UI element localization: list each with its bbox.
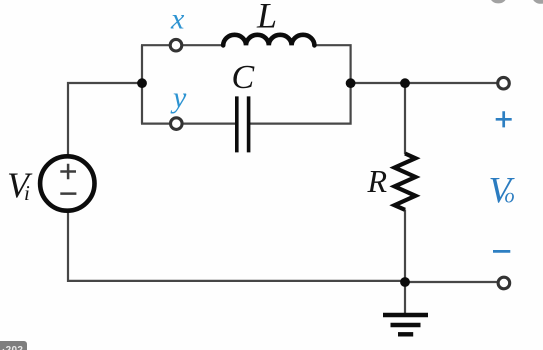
output minus sign (blue) [493, 250, 510, 253]
node: junction at Vi branch [137, 78, 147, 88]
output + terminal open circle [498, 77, 510, 89]
wire: top branch from inductor to right corner down to node [314, 45, 351, 80]
output plus sign (blue) [496, 111, 512, 127]
svg-text:i: i [24, 181, 30, 205]
wire: top branch left segment to terminal x [141, 44, 171, 46]
svg-text:o: o [505, 186, 515, 208]
capacitor C plates [237, 96, 249, 152]
source minus sign [60, 192, 76, 195]
svg-text:x: x [170, 3, 185, 36]
resistor R zigzag [395, 154, 416, 210]
inductor L [223, 35, 314, 46]
wire: bottom rail to output - terminal [405, 281, 498, 283]
wire: junction vertical between x and y branches [141, 45, 143, 123]
bottom-left gray badge with 202 [0, 341, 27, 350]
wire: node down to resistor top [404, 83, 406, 154]
wire: ground stem [404, 282, 406, 314]
node: R top junction [400, 78, 410, 88]
source V_i circle [40, 156, 94, 210]
wire: bottom branch from capacitor up to node [250, 86, 351, 124]
wire: bottom rail from Vi to ground node [68, 211, 405, 281]
ground symbol [383, 315, 428, 334]
wire: bottom branch left segment to terminal y [141, 122, 171, 124]
wire: top branch from terminal x to inductor [182, 44, 225, 46]
svg-text:R: R [367, 163, 388, 199]
node: LC right junction [346, 78, 356, 88]
wire: bottom branch from terminal y to capacitor [182, 122, 236, 124]
wire: node to output + terminal [351, 82, 498, 84]
svg-text:C: C [232, 59, 255, 96]
decorative top edge gray dots [490, 0, 506, 3]
source plus sign [60, 164, 76, 180]
node: ground junction [400, 277, 410, 287]
wire: Vi top lead up and right to junction [68, 83, 138, 156]
output - terminal open circle [498, 277, 510, 289]
svg-text:y: y [170, 81, 187, 114]
terminal y open circle [171, 118, 183, 130]
wire: resistor bottom to bottom rail [404, 210, 406, 283]
svg-text:L: L [256, 0, 277, 36]
terminal x open circle [170, 39, 182, 51]
